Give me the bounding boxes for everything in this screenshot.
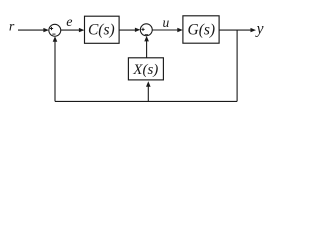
svg-text:r: r	[9, 20, 15, 35]
svg-text:u: u	[163, 15, 170, 30]
svg-text:y: y	[255, 21, 264, 38]
svg-text:C(s): C(s)	[88, 21, 115, 38]
svg-text:X(s): X(s)	[132, 62, 158, 78]
svg-text:e: e	[66, 15, 72, 30]
svg-text:G(s): G(s)	[188, 21, 216, 38]
